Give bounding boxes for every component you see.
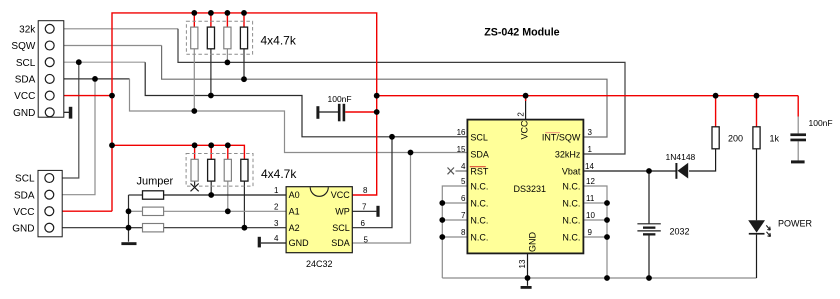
svg-text:A1: A1 <box>289 207 300 217</box>
node RN1 top 2 <box>208 10 214 16</box>
resistor network RN2 dashed box <box>186 154 253 187</box>
wire red lead resistor network1 R1 <box>193 13 195 27</box>
svg-text:6: 6 <box>361 219 366 228</box>
svg-text:1: 1 <box>588 145 593 154</box>
node 1k top <box>754 93 760 99</box>
node NC left 6 <box>439 200 445 206</box>
svg-text:8: 8 <box>363 186 368 195</box>
svg-text:2032: 2032 <box>670 226 690 236</box>
P1 pin circle SDA <box>45 74 54 83</box>
wire NC pin 6 stub <box>442 202 467 204</box>
svg-text:2: 2 <box>274 203 279 212</box>
svg-text:SCL: SCL <box>332 223 350 233</box>
svg-text:14: 14 <box>585 162 594 171</box>
wire network2 R3 bottom lead to A1 row <box>227 181 229 211</box>
wire network1 R3 bottom lead to 32k line <box>226 49 228 63</box>
svg-text:100nF: 100nF <box>328 94 352 104</box>
P2 pin circle VCC <box>45 207 54 216</box>
svg-text:N.C.: N.C. <box>562 215 580 225</box>
wire 32k reroute to DS3231 32kHz pin <box>178 29 625 154</box>
node 32k pullup <box>225 60 231 66</box>
svg-text:7: 7 <box>461 211 466 220</box>
wire network2 R4 bottom lead to A2 row <box>243 181 245 228</box>
svg-text:3: 3 <box>588 128 593 137</box>
node SCL bus join <box>389 134 395 140</box>
wire jumper J2 left lead <box>129 210 143 212</box>
resistor R2 1k <box>753 127 760 149</box>
wire A2 row jumper J3 to 24C32 pin A2 <box>164 227 287 229</box>
wire 24C32 SCL pin 6 to SCL bus <box>352 137 392 228</box>
node VCC net2 feed <box>109 142 115 148</box>
node GND rail battery <box>646 275 652 281</box>
wire cap C1 red lead <box>345 111 377 113</box>
svg-text:4: 4 <box>274 234 279 243</box>
node SCL pullup <box>208 93 214 99</box>
wire A0 row jumper J1 to 24C32 pin A0 <box>164 194 287 196</box>
wire red lead network2 R3 <box>227 145 229 159</box>
U1 GND pin 4 wire and terminal bar <box>261 242 286 244</box>
P2 pin circle GND <box>45 223 54 232</box>
wire network2 R1 bottom stub to X <box>194 181 196 187</box>
node VCC pin2 <box>523 93 529 99</box>
svg-text:GND: GND <box>527 232 537 253</box>
wire red lead network2 R1 <box>194 145 196 159</box>
node red rail branch <box>374 93 380 99</box>
ground bar terminal at cap C2 <box>791 160 805 163</box>
svg-text:10: 10 <box>586 211 595 220</box>
svg-text:13: 13 <box>518 259 527 268</box>
svg-text:200: 200 <box>728 133 743 143</box>
svg-text:4x4.7k: 4x4.7k <box>261 33 297 47</box>
node GND rail pin13 <box>525 275 531 281</box>
node SDA branch <box>92 76 98 82</box>
ground bar terminal at WP pin <box>376 206 379 217</box>
wire 24C32 SDA pin 5 to SDA bus <box>352 153 410 244</box>
svg-text:SCL: SCL <box>16 58 36 69</box>
node RN1 top 4 <box>241 10 247 16</box>
wire Vbat row to diode <box>583 170 675 172</box>
wire SDA branch to 4-pin connector <box>54 79 95 195</box>
ground bar terminal at cap C1 <box>316 106 319 119</box>
wire SQW reroute to DS3231 INT/SQW pin <box>162 46 607 138</box>
svg-text:4x4.7k: 4x4.7k <box>261 167 297 181</box>
svg-text:5: 5 <box>461 177 466 186</box>
wire SDA row from connector <box>54 78 130 80</box>
svg-text:Jumper: Jumper <box>137 175 174 187</box>
node RN2 top 3 <box>225 142 231 148</box>
ground symbol at DS3231 GND <box>521 286 532 289</box>
ground symbol at jumper common <box>121 242 136 245</box>
svg-text:INT/SQW: INT/SQW <box>542 132 581 142</box>
svg-text:VCC: VCC <box>331 190 351 200</box>
resistor RN2-4 <box>241 159 248 181</box>
wire NC pin 7 stub <box>442 219 467 221</box>
svg-text:12: 12 <box>586 177 595 186</box>
node SQW pullup <box>241 76 247 82</box>
svg-text:16: 16 <box>457 128 466 137</box>
wire cap C2 top lead <box>797 117 799 134</box>
capacitor C2 100nF plates <box>790 133 806 136</box>
wire jumper J1 left lead <box>129 194 143 196</box>
svg-text:3: 3 <box>274 219 279 228</box>
wire 1k to LED <box>756 149 758 221</box>
node GND rail NC right <box>604 275 610 281</box>
svg-text:A2: A2 <box>289 223 300 233</box>
svg-text:GND: GND <box>13 108 35 119</box>
svg-text:A0: A0 <box>289 190 300 200</box>
wire VCC red branch right rail <box>377 95 799 97</box>
wire A1 row jumper J2 to 24C32 pin A1 <box>164 210 287 212</box>
wire GND row 4-pin connector <box>54 227 129 229</box>
IC U1 24C32 body <box>286 187 352 253</box>
jumper J2 <box>143 207 164 215</box>
node RN2 top 1 <box>192 142 198 148</box>
svg-text:32k: 32k <box>19 24 36 35</box>
P1 pin circle SCL <box>45 58 54 67</box>
wire cap C2 bottom lead <box>797 141 799 160</box>
wire NC pin 10 stub <box>583 219 607 221</box>
svg-text:1N4148: 1N4148 <box>666 152 696 162</box>
no-connect X mark on RST pin <box>448 168 455 175</box>
connector P2 4-pin body <box>38 170 62 236</box>
svg-text:15: 15 <box>457 145 466 154</box>
svg-text:SDA: SDA <box>470 149 489 159</box>
node VCC riser <box>109 93 115 99</box>
svg-text:SDA: SDA <box>14 190 35 201</box>
wire VCC red from connector <box>54 95 112 97</box>
wire VCC red to 4-pin connector <box>54 210 112 212</box>
resistor RN1-2 <box>207 27 214 49</box>
resistor RN1-1 <box>191 27 198 49</box>
wire SQW row from connector <box>54 45 162 47</box>
resistor RN2-3 <box>224 159 231 181</box>
battery BT1 2032 <box>637 223 660 225</box>
svg-text:RST: RST <box>470 166 489 176</box>
wire red lead network2 R2 <box>210 145 212 159</box>
P1 pin circle SQW <box>45 41 54 50</box>
wire SCL branch to 4-pin connector <box>54 62 79 178</box>
IC U2 DS3231 body <box>467 120 583 254</box>
no-connect X mark on RN2-1 <box>191 184 199 192</box>
wire cap C1 left lead <box>319 111 338 113</box>
diode D1 1N4148 <box>675 163 677 179</box>
svg-text:2: 2 <box>516 112 525 117</box>
svg-text:Vbat: Vbat <box>562 166 581 176</box>
resistor R1 200 <box>712 127 719 149</box>
node SDA bus join <box>408 150 414 156</box>
wire network1 R1 bottom lead to SDA bus <box>193 49 195 111</box>
LED light arrows <box>766 225 770 230</box>
wire SCL row from connector <box>54 61 145 63</box>
svg-text:N.C.: N.C. <box>562 198 580 208</box>
svg-text:WP: WP <box>335 207 350 217</box>
svg-text:6: 6 <box>461 194 466 203</box>
svg-text:N.C.: N.C. <box>562 232 580 242</box>
resistor RN1-3 <box>224 27 231 49</box>
wire SCL bus to DS3231 pin 16 <box>145 62 467 137</box>
wire red stub VCC pin 2 <box>525 96 527 101</box>
wire DS3231 VCC pin 2 <box>525 96 527 120</box>
resistor RN1-4 <box>240 27 247 49</box>
node RN2 top 2 <box>208 142 214 148</box>
node A0 pullup <box>208 192 214 198</box>
node jumper J2 <box>126 208 132 214</box>
svg-text:N.C.: N.C. <box>470 215 488 225</box>
svg-text:SCL: SCL <box>15 174 35 185</box>
svg-text:100nF: 100nF <box>809 118 833 128</box>
wire network1 R2 bottom lead to SCL bus <box>210 49 212 96</box>
LED D2 POWER <box>748 220 765 232</box>
wire VCC red feed to network 2 <box>112 145 244 159</box>
wire red lead cap C2 <box>797 96 799 117</box>
wire 32k row from connector <box>54 28 178 30</box>
wire ground bottom rail <box>442 277 756 279</box>
svg-text:N.C.: N.C. <box>470 198 488 208</box>
node cap C1 junction <box>374 109 380 115</box>
wire red lead resistor network1 R2 <box>210 13 212 27</box>
svg-text:GND: GND <box>289 238 310 248</box>
wire GND stub 6-pin connector <box>54 111 69 113</box>
node SCL branch <box>76 59 82 65</box>
ground bar terminal at 6-pin GND <box>69 107 73 119</box>
wire red lead resistor network1 R4 <box>243 13 245 27</box>
svg-text:VCC: VCC <box>14 91 35 102</box>
wire battery bottom lead <box>648 235 650 278</box>
wire jumper J3 left lead <box>129 227 143 229</box>
wire NC pin 9 stub <box>583 236 607 238</box>
svg-text:VCC: VCC <box>519 120 529 140</box>
wire RST stub <box>456 170 468 172</box>
node RN1 top 3 <box>225 10 231 16</box>
node NC right 9 <box>604 234 610 240</box>
svg-text:POWER: POWER <box>778 219 813 229</box>
svg-text:N.C.: N.C. <box>470 232 488 242</box>
jumper J1 <box>143 191 164 199</box>
wire DS3231 GND pin 13 <box>527 253 529 285</box>
P1 pin circle GND <box>45 108 54 117</box>
connector P1 6-pin body <box>38 21 64 118</box>
svg-text:5: 5 <box>364 235 369 244</box>
wire network1 R4 bottom lead to SQW line <box>243 49 245 79</box>
svg-text:ZS-042 Module: ZS-042 Module <box>484 27 559 39</box>
node A2 pullup <box>242 225 248 231</box>
wire DS3231 right NC pins common <box>583 186 607 278</box>
node SDA pullup <box>191 108 197 114</box>
svg-text:SCL: SCL <box>470 132 488 142</box>
wire WP stub <box>352 210 376 212</box>
wire diode to 200 resistor <box>689 149 716 171</box>
svg-text:GND: GND <box>12 223 34 234</box>
wire network2 R2 bottom lead to A0 row <box>210 181 212 195</box>
svg-text:11: 11 <box>586 194 595 203</box>
capacitor C1 100nF plates <box>338 104 341 122</box>
svg-text:9: 9 <box>588 228 593 237</box>
wire red lead resistor network1 R3 <box>226 13 228 27</box>
node Vbat battery <box>646 168 652 174</box>
svg-text:1: 1 <box>274 186 279 195</box>
P1 pin circle 32k <box>45 24 54 33</box>
resistor RN2-1 <box>191 159 198 181</box>
svg-text:24C32: 24C32 <box>306 259 333 269</box>
wire battery top lead <box>648 171 650 223</box>
jumper J3 <box>143 224 164 232</box>
P2 pin circle SDA <box>45 190 54 199</box>
node NC left 8 <box>439 234 445 240</box>
node 200 top <box>713 93 719 99</box>
wire DS3231 left NC pins common <box>442 186 467 278</box>
wire red lead 200 resistor <box>715 96 717 127</box>
node jumper J3 GND <box>126 225 132 231</box>
wire NC pin 11 stub <box>583 202 607 204</box>
node NC right 10 <box>604 217 610 223</box>
svg-text:N.C.: N.C. <box>470 181 488 191</box>
P2 pin circle SCL <box>45 174 54 183</box>
node NC right 11 <box>604 200 610 206</box>
svg-text:SDA: SDA <box>15 75 36 86</box>
node NC left 7 <box>439 217 445 223</box>
resistor RN2-2 <box>208 159 215 181</box>
node RN1 top 1 <box>191 10 197 16</box>
wire NC pin 8 stub <box>442 236 467 238</box>
wire red lead 1k resistor <box>756 96 758 127</box>
svg-text:4: 4 <box>461 162 466 171</box>
wire VCC red riser and top rail <box>112 13 377 211</box>
wire LED cathode to ground rail <box>756 235 758 278</box>
svg-text:32kHz: 32kHz <box>555 149 581 159</box>
svg-text:DS3231: DS3231 <box>514 184 547 194</box>
svg-text:SDA: SDA <box>331 238 350 248</box>
svg-text:1k: 1k <box>770 133 780 143</box>
svg-text:VCC: VCC <box>13 207 34 218</box>
wire jumper common vertical <box>128 195 130 242</box>
IC U1 notch <box>310 187 328 196</box>
P1 pin circle VCC <box>45 91 54 100</box>
wire SDA bus to DS3231 pin 15 <box>130 79 468 153</box>
resistor network RN1 dashed box <box>186 21 252 54</box>
svg-text:8: 8 <box>461 228 466 237</box>
svg-text:SQW: SQW <box>11 41 35 52</box>
node A1 pullup <box>225 208 231 214</box>
svg-text:N.C.: N.C. <box>562 181 580 191</box>
svg-text:7: 7 <box>362 203 367 212</box>
